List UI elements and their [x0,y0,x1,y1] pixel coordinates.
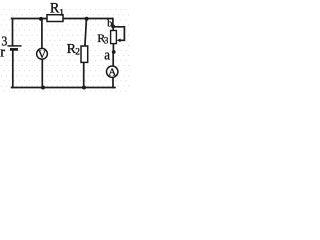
wire left below battery [12,51,14,88]
battery plate short thick [10,48,18,51]
junction dot top wire / R2 [85,17,89,21]
junction dot bottom wire / voltmeter [41,86,45,90]
wire left above battery [12,19,14,46]
wire R3 bottom to node a [112,43,114,52]
wire voltmeter branch lower [41,59,43,88]
wire node a down to ammeter [112,52,114,67]
resistor R1 [47,15,63,22]
battery EMF plate long [8,45,22,47]
junction dot node a [112,50,116,54]
rheostat slider arrowhead [117,38,121,42]
svg-text:b: b [107,19,112,30]
voltmeter V [37,48,48,59]
resistor R2 [81,46,88,62]
svg-text:2: 2 [75,47,80,57]
wire voltmeter branch upper [41,19,43,49]
ammeter A [107,66,118,77]
svg-text:r: r [0,44,5,60]
wire node b to slider loop (right, down, left to arrow) [114,27,125,41]
rheostat R3 [111,31,117,44]
dotted graph-paper background [0,0,130,92]
svg-text:1: 1 [59,9,64,19]
wire R2 branch lower [83,62,85,87]
junction dot node b [111,25,115,29]
wire R2 branch upper [85,20,87,47]
wire bottom [12,87,115,89]
wire node b down into R3 [112,27,114,31]
junction dot top wire / voltmeter [39,17,43,21]
svg-text:V: V [38,49,47,61]
wire ammeter to bottom wire [112,78,114,88]
wire right-top (top corner down to node b) [112,19,114,27]
junction dot bottom wire / R2 [82,86,86,90]
svg-text:3: 3 [104,36,109,46]
wire top [12,18,113,20]
svg-text:a: a [104,47,110,63]
svg-text:A: A [108,67,116,79]
